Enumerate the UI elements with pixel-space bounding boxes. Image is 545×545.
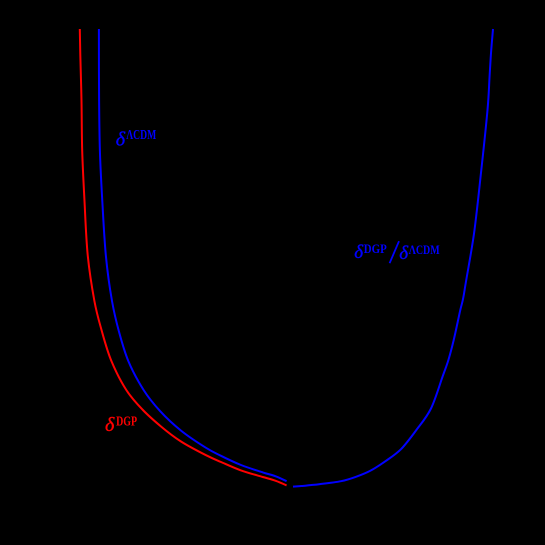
svg-text:ΛCDM: ΛCDM: [126, 127, 156, 142]
svg-text:δ: δ: [354, 242, 364, 263]
svg-text:δ: δ: [399, 243, 409, 264]
label delta^LCDM (blue): [116, 127, 157, 151]
label delta^DGP (red): [105, 414, 137, 436]
svg-text:δ: δ: [116, 129, 126, 151]
svg-text:δ: δ: [105, 414, 115, 436]
svg-text:DGP: DGP: [116, 414, 137, 429]
svg-text:ΛCDM: ΛCDM: [409, 242, 440, 257]
svg-text:DGP: DGP: [364, 241, 387, 256]
label delta^DGP / delta^LCDM (blue): [354, 241, 439, 264]
curve delta^DGP (red, left): [80, 29, 287, 485]
curve ratio delta^DGP / delta^LCDM (blue, right): [293, 29, 493, 487]
curve delta^LCDM (blue, left): [99, 29, 287, 481]
